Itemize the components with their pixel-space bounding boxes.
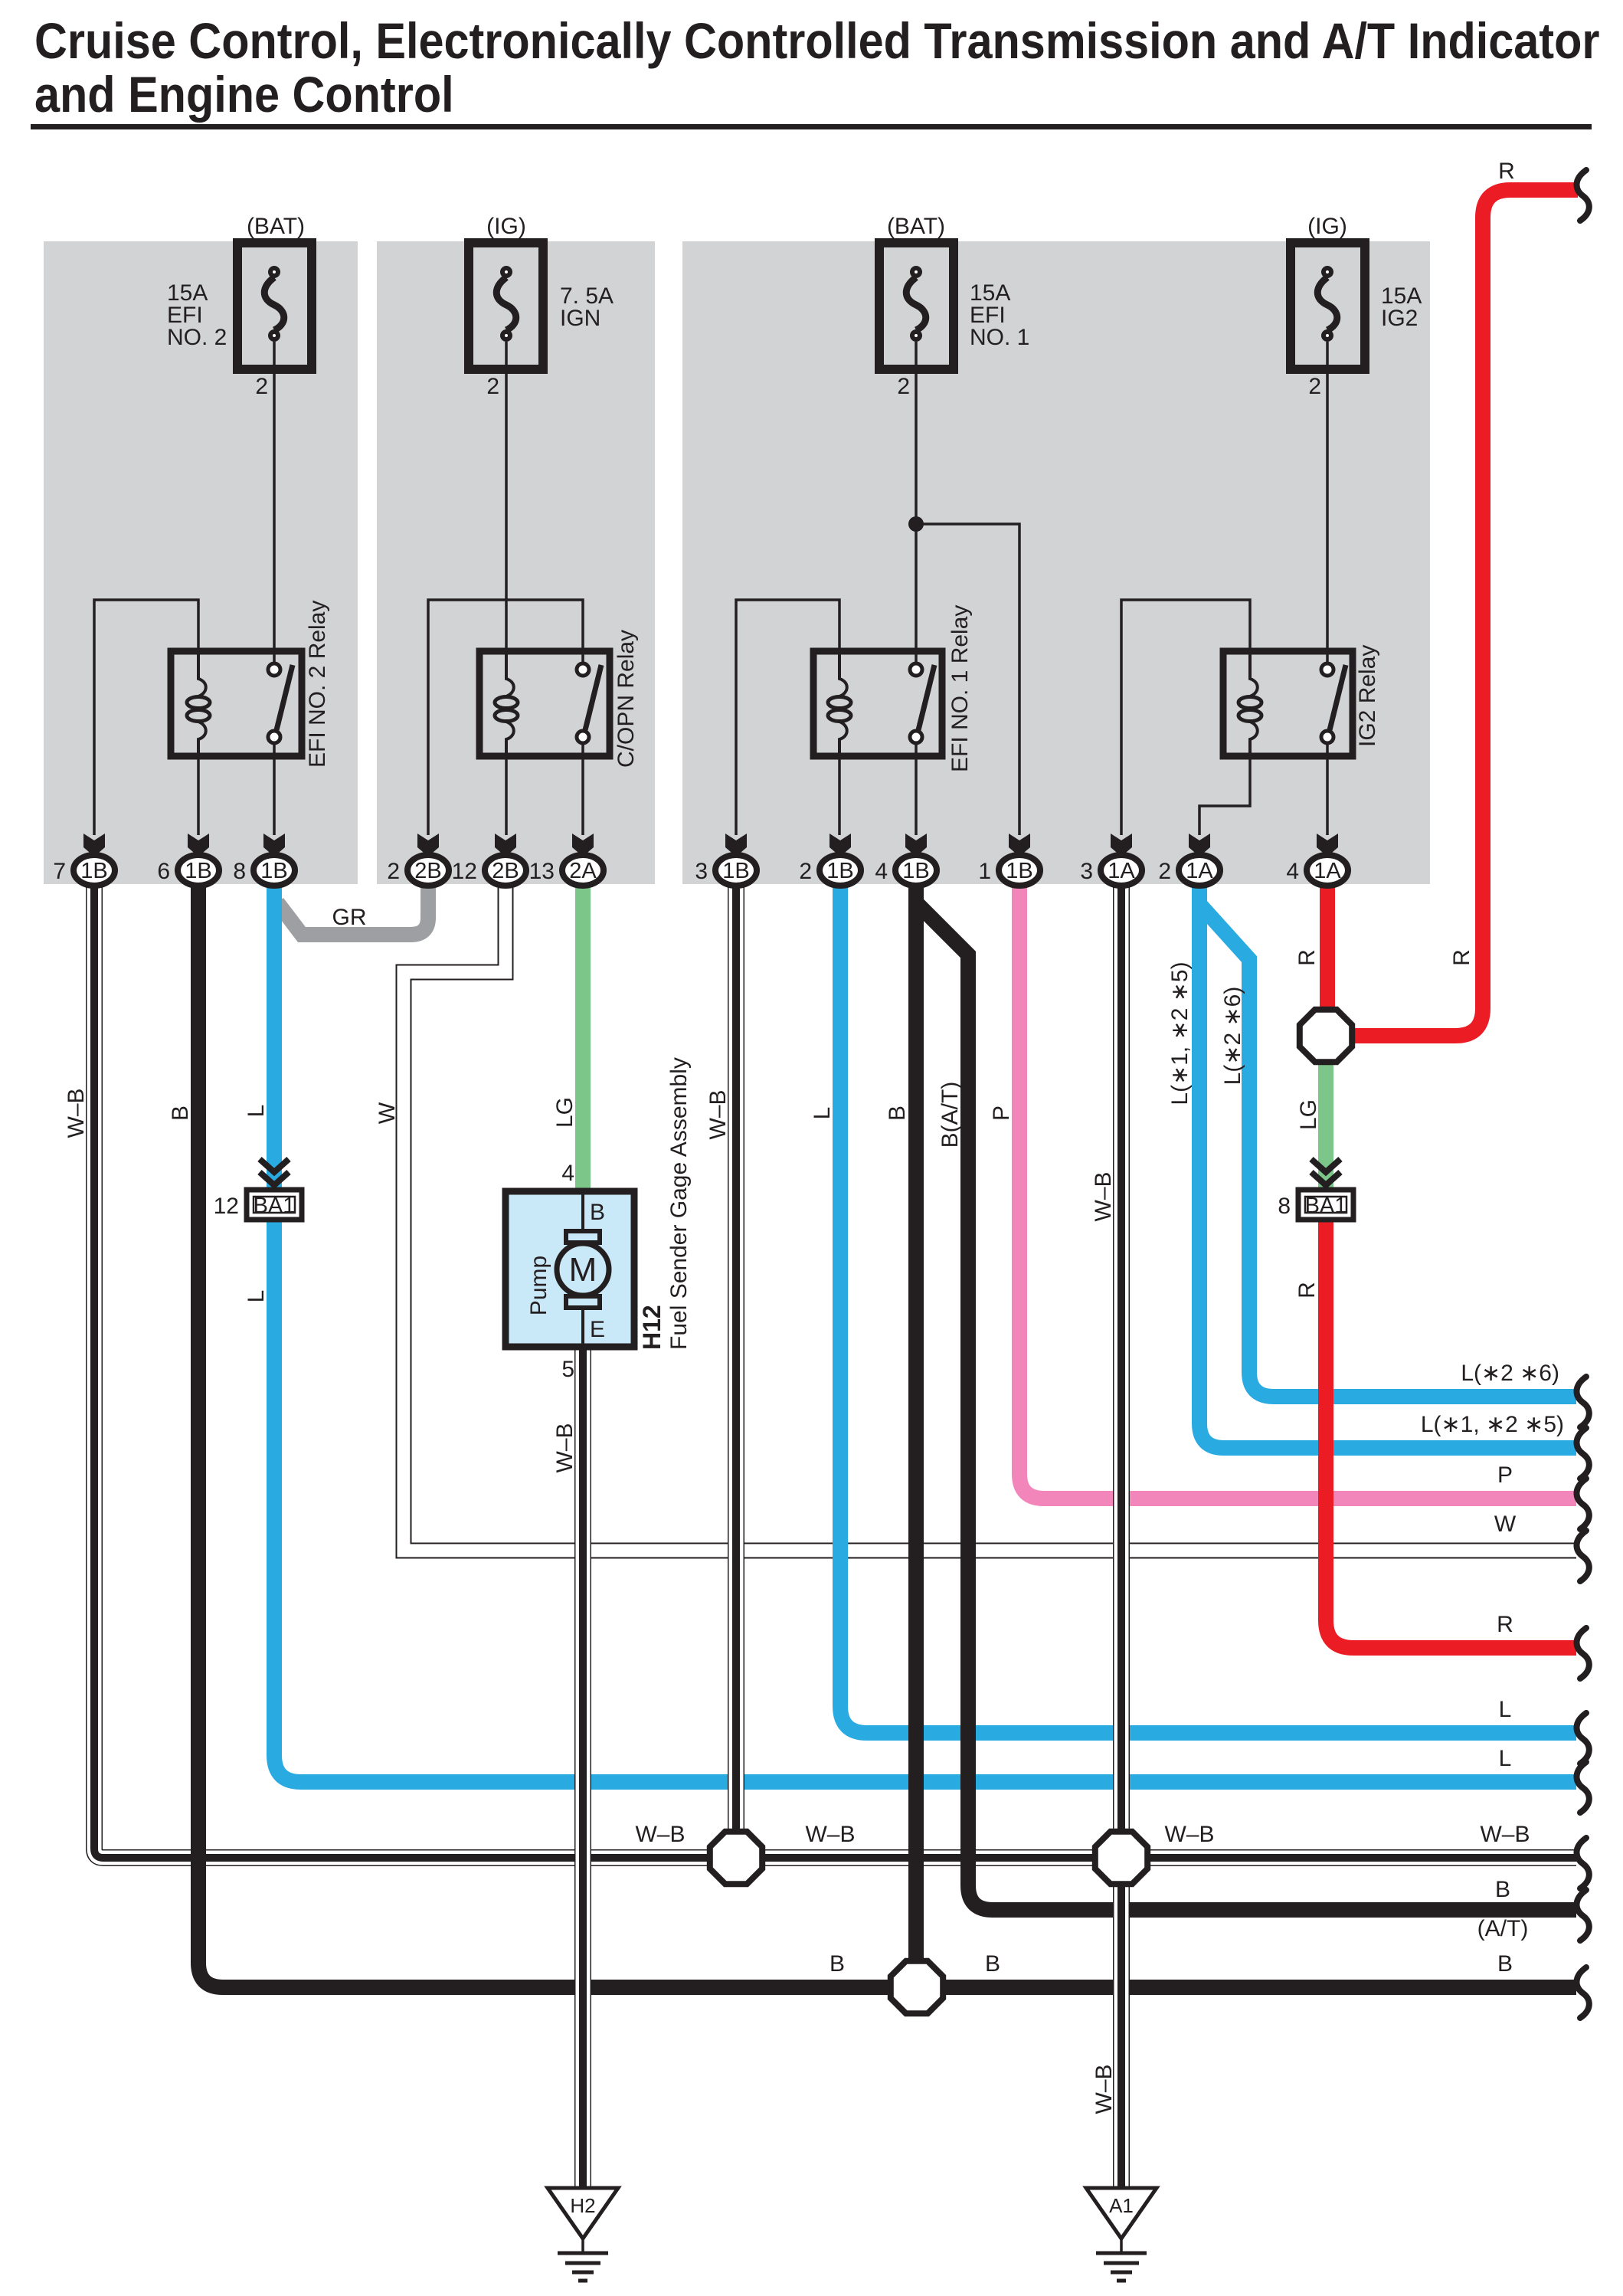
connector 1B pin 8 arrow <box>263 834 285 856</box>
svg-text:R: R <box>1497 1612 1513 1637</box>
svg-text:7: 7 <box>53 859 66 884</box>
wire break squiggle <box>1576 1377 1589 1427</box>
svg-text:L: L <box>244 1105 269 1118</box>
svg-text:IG2: IG2 <box>1381 306 1418 331</box>
svg-text:(IG): (IG) <box>486 214 526 239</box>
svg-text:2: 2 <box>799 859 812 884</box>
svg-text:2: 2 <box>486 374 499 399</box>
svg-text:2B: 2B <box>414 859 441 883</box>
wire W-B (connector 1B-3 down to W-B junction octagon) <box>728 881 744 1858</box>
svg-text:W–B: W–B <box>705 1089 731 1139</box>
junction block panel 1 (EFI NO.2) <box>44 241 358 884</box>
wire L (connector 1B-8 down, bottom horizontal to right exit) <box>274 881 1576 1782</box>
svg-text:1B: 1B <box>1006 859 1032 883</box>
wire fuse IG2 to relay switch <box>1326 342 1329 663</box>
wire B (connector 1B-6 down, bottom horizontal to right exit) <box>198 881 1576 1987</box>
svg-text:NO. 2: NO. 2 <box>167 325 227 350</box>
svg-text:B: B <box>1497 1951 1513 1977</box>
connector 1A pin 4 arrow <box>1317 834 1338 856</box>
svg-text:4: 4 <box>875 859 888 884</box>
svg-text:W: W <box>1494 1512 1517 1537</box>
wire L (connector 1B-2 down, horizontal to right exit) <box>840 881 1576 1733</box>
svg-text:Pump: Pump <box>526 1256 551 1315</box>
double arrow into BA1 <box>1311 1159 1340 1172</box>
connector 1B pin 7 <box>53 855 115 886</box>
svg-text:H12: H12 <box>638 1305 666 1350</box>
svg-text:B: B <box>985 1951 1000 1977</box>
svg-text:B: B <box>590 1200 605 1225</box>
svg-text:H2: H2 <box>570 2194 595 2217</box>
connector 2B pin 2 arrow <box>417 834 439 856</box>
svg-text:1A: 1A <box>1314 859 1341 883</box>
wire B(A/T) (branch from connector 1B-4, down and right exit) <box>916 902 1576 1910</box>
wire break squiggle <box>1576 1628 1589 1679</box>
connector 2B pin 12 <box>452 855 526 886</box>
wire relay coil top loop to connector 1B-3 <box>736 600 839 835</box>
svg-text:1: 1 <box>978 859 991 884</box>
connector 2B pin 12 arrow <box>495 834 516 856</box>
junction octagon W-B right <box>1095 1832 1147 1884</box>
wire break squiggle <box>1576 1531 1589 1581</box>
wire relay coil bottom jog to connector 1A-2 <box>1199 755 1250 835</box>
wire L(*1, *2 *5) (connector 1A-2 down, to right exit) <box>1199 881 1576 1448</box>
junction octagon B <box>891 1961 943 2013</box>
svg-text:6: 6 <box>157 859 170 884</box>
wire GR (connector 1B-8 to connector 2B-2) <box>277 881 428 935</box>
ground A1 <box>1086 2188 1157 2281</box>
svg-text:LG: LG <box>552 1097 578 1128</box>
wire relay switch top loop to connector 2B-2 <box>428 600 583 835</box>
svg-text:Cruise Control, Electronically: Cruise Control, Electronically Controlle… <box>34 13 1599 70</box>
svg-text:1A: 1A <box>1186 859 1213 883</box>
wire W-B (connector 1B-7 down, bottom horizontal run to right edge) <box>94 881 1576 1858</box>
svg-text:and Engine Control: and Engine Control <box>34 67 454 123</box>
wire relay switch bottom to connector 1A-4 <box>1326 743 1329 835</box>
svg-text:W–B: W–B <box>1091 2064 1117 2114</box>
wire relay coil bottom to connector 2B-12 <box>505 741 508 835</box>
wire R (junction octagon right, up to top-right exit) <box>1326 190 1578 1036</box>
fuse EFI NO.2 <box>237 214 312 369</box>
svg-text:4: 4 <box>561 1161 574 1186</box>
relay EFI NO. 1 Relay <box>813 605 973 772</box>
wire branch from junction dot to connector 1B-1 <box>916 524 1019 835</box>
svg-text:L: L <box>244 1290 269 1303</box>
svg-text:1A: 1A <box>1108 859 1135 883</box>
connector 1B pin 3 <box>695 855 757 886</box>
svg-text:(BAT): (BAT) <box>887 214 945 239</box>
svg-text:EFI NO. 1 Relay: EFI NO. 1 Relay <box>947 605 973 772</box>
svg-text:E: E <box>590 1317 605 1342</box>
svg-text:3: 3 <box>1080 859 1093 884</box>
svg-text:GR: GR <box>332 905 367 930</box>
wire break squiggle <box>1576 170 1589 221</box>
svg-text:1B: 1B <box>80 859 107 883</box>
svg-text:W–B: W–B <box>1480 1822 1530 1847</box>
connector 1B pin 3 arrow <box>725 834 747 856</box>
svg-text:1B: 1B <box>902 859 929 883</box>
wire L(*2 *6) (branch from connector 1A-2 to right exit) <box>1199 904 1576 1397</box>
wire break squiggle <box>1576 1479 1589 1529</box>
connector 1B pin 4 arrow <box>905 834 927 856</box>
svg-text:1B: 1B <box>185 859 211 883</box>
svg-text:2: 2 <box>1158 859 1171 884</box>
svg-text:1B: 1B <box>722 859 749 883</box>
connector 1B pin 2 arrow <box>829 834 851 856</box>
svg-text:2: 2 <box>387 859 400 884</box>
svg-text:2: 2 <box>255 374 268 399</box>
connector 1B pin 7 arrow <box>83 834 105 856</box>
svg-text:NO. 1: NO. 1 <box>970 325 1029 350</box>
pump motor M1 <box>557 1194 609 1344</box>
double arrow into BA1 <box>260 1159 289 1172</box>
fuse EFI NO.1 value label <box>970 280 1029 350</box>
svg-text:R: R <box>1498 159 1515 184</box>
wire break squiggle <box>1576 1967 1589 2018</box>
connector 1B pin 2 <box>799 855 861 886</box>
connector 1A pin 2 <box>1158 855 1220 886</box>
fuse IG2 <box>1291 214 1365 369</box>
connector 1B pin 1 arrow <box>1009 834 1030 856</box>
svg-text:(A/T): (A/T) <box>1477 1916 1529 1941</box>
connector 1A pin 4 <box>1286 855 1348 886</box>
connector 1B pin 8 <box>233 855 295 886</box>
wire relay switch bottom to connector 1B-8 <box>273 743 276 835</box>
svg-text:12: 12 <box>452 859 477 884</box>
connector 1A pin 3 arrow <box>1111 834 1132 856</box>
svg-text:12: 12 <box>214 1194 239 1219</box>
title text <box>31 13 1599 129</box>
svg-text:L(∗2 ∗6): L(∗2 ∗6) <box>1461 1361 1559 1386</box>
wire W (connector 2B-12 jog left then right exit) <box>404 881 1576 1551</box>
junction block panel 3 (EFI NO.1 / IG2) <box>682 241 1430 884</box>
svg-text:BA1: BA1 <box>1305 1194 1347 1218</box>
connector 1B pin 6 <box>157 855 219 886</box>
wire break squiggle <box>1576 1428 1589 1479</box>
svg-text:IGN: IGN <box>560 306 600 331</box>
connector BA1 pin 12 <box>214 1190 302 1220</box>
wire break squiggle <box>1576 1762 1589 1813</box>
svg-text:1B: 1B <box>260 859 287 883</box>
svg-text:W–B: W–B <box>64 1088 89 1138</box>
relay IG2 Relay <box>1223 645 1380 756</box>
wire break squiggle <box>1576 1838 1589 1888</box>
relay C/OPN Relay <box>479 630 639 768</box>
relay EFI NO. 2 Relay <box>171 601 330 768</box>
svg-text:L: L <box>1499 1697 1512 1722</box>
fuel sender gage assembly H12 box <box>506 1191 634 1347</box>
svg-text:L(∗1, ∗2 ∗5): L(∗1, ∗2 ∗5) <box>1421 1412 1564 1437</box>
junction block panel 2 (C/OPN) <box>377 241 655 884</box>
svg-text:B: B <box>168 1105 193 1121</box>
wire fuse EFI NO.2 to relay switch <box>273 342 276 663</box>
wire break squiggle <box>1576 1890 1589 1941</box>
wire P (connector 1B-1 down, to right exit) <box>1019 881 1576 1498</box>
svg-text:2A: 2A <box>569 859 597 883</box>
connector 1B pin 6 arrow <box>188 834 209 856</box>
wire W-B (connector 1A-3 down through octagon to ground A1) <box>1113 881 1130 2193</box>
svg-text:L: L <box>1499 1746 1512 1771</box>
wire relay switch bottom to connector 2A-13 <box>581 743 584 835</box>
connector 1A pin 2 arrow <box>1189 834 1210 856</box>
fuse IGN <box>469 214 543 369</box>
svg-text:P: P <box>1497 1462 1513 1488</box>
svg-text:W–B: W–B <box>1164 1822 1214 1847</box>
svg-text:L(∗1, ∗2 ∗5): L(∗1, ∗2 ∗5) <box>1167 961 1193 1105</box>
svg-text:13: 13 <box>529 859 555 884</box>
svg-text:LG: LG <box>1296 1099 1321 1130</box>
ground H2 <box>548 2188 618 2281</box>
wire fuse EFI NO.1 to relay switch <box>915 342 918 663</box>
junction octagon R/LG <box>1300 1010 1352 1062</box>
svg-text:B: B <box>829 1951 845 1977</box>
connector BA1 pin 8 <box>1278 1190 1353 1220</box>
wire LG (junction octagon to connector BA1-8) <box>1318 1036 1333 1190</box>
svg-text:M: M <box>569 1251 597 1289</box>
fuse IGN value label <box>560 283 614 331</box>
connector 2A pin 13 arrow <box>572 834 594 856</box>
fuse EFI NO.1 <box>879 214 954 369</box>
svg-text:L(∗2 ∗6): L(∗2 ∗6) <box>1220 987 1245 1086</box>
connector 1A pin 3 <box>1080 855 1142 886</box>
svg-text:R: R <box>1294 949 1320 966</box>
svg-text:B: B <box>885 1105 910 1121</box>
wire fuse IGN to relay coil <box>505 342 508 680</box>
svg-text:2B: 2B <box>492 859 519 883</box>
wire R (below connector BA1-8 to right exit) <box>1326 1218 1576 1648</box>
svg-text:R: R <box>1449 949 1474 966</box>
svg-text:8: 8 <box>233 859 246 884</box>
wire relay switch bottom to connector 1B-4 <box>915 743 918 835</box>
svg-text:(BAT): (BAT) <box>247 214 305 239</box>
wire W-B (fuel pump pin 5 to ground H2) <box>574 1347 591 2193</box>
svg-text:W–B: W–B <box>805 1822 855 1847</box>
svg-text:W–B: W–B <box>635 1822 685 1847</box>
svg-text:W–B: W–B <box>1091 1171 1116 1221</box>
fuse IG2 value label <box>1381 283 1422 331</box>
wire relay coil top loop to connector 1B-7 <box>94 600 198 835</box>
fuse EFI NO.2 value label <box>167 280 227 350</box>
svg-text:EFI NO. 2 Relay: EFI NO. 2 Relay <box>305 601 330 768</box>
svg-text:L: L <box>810 1107 835 1120</box>
svg-text:1B: 1B <box>826 859 853 883</box>
svg-text:2: 2 <box>1308 374 1321 399</box>
svg-text:P: P <box>989 1105 1014 1121</box>
wire R (connector 1A-4 down to junction octagon) <box>1320 881 1335 1036</box>
svg-text:A1: A1 <box>1109 2194 1134 2217</box>
wire relay coil bottom to connector 1B-6 <box>197 755 200 835</box>
connector 2B pin 2 <box>387 855 449 886</box>
svg-text:8: 8 <box>1278 1194 1291 1219</box>
svg-text:C/OPN Relay: C/OPN Relay <box>614 630 639 768</box>
wire relay coil top loop to connector 1A-3 <box>1121 600 1250 835</box>
svg-text:B: B <box>1495 1877 1510 1902</box>
svg-text:5: 5 <box>561 1357 574 1382</box>
svg-text:3: 3 <box>695 859 708 884</box>
svg-text:W: W <box>375 1102 400 1124</box>
svg-text:Fuel Sender Gage Assembly: Fuel Sender Gage Assembly <box>666 1057 692 1350</box>
svg-text:R: R <box>1294 1282 1320 1299</box>
connector 2A pin 13 <box>529 855 604 886</box>
junction dot on EFI NO.1 feed <box>908 516 924 532</box>
wire break squiggle <box>1576 1713 1589 1764</box>
svg-text:2: 2 <box>897 374 910 399</box>
wire relay coil bottom to connector 1B-2 <box>838 741 841 835</box>
wire B (connector 1B-4 down to B junction octagon) <box>908 881 924 1987</box>
connector 1B pin 4 <box>875 855 937 886</box>
svg-text:IG2 Relay: IG2 Relay <box>1355 645 1380 747</box>
svg-text:B(A/T): B(A/T) <box>937 1082 963 1148</box>
svg-text:4: 4 <box>1286 859 1299 884</box>
wire LG (connector 2A-13 to fuel pump pin 4) <box>575 881 591 1190</box>
connector 1B pin 1 <box>978 855 1040 886</box>
svg-text:BA1: BA1 <box>254 1194 296 1218</box>
svg-text:W–B: W–B <box>552 1423 578 1472</box>
svg-text:(IG): (IG) <box>1307 214 1347 239</box>
junction octagon W-B left <box>710 1832 762 1884</box>
